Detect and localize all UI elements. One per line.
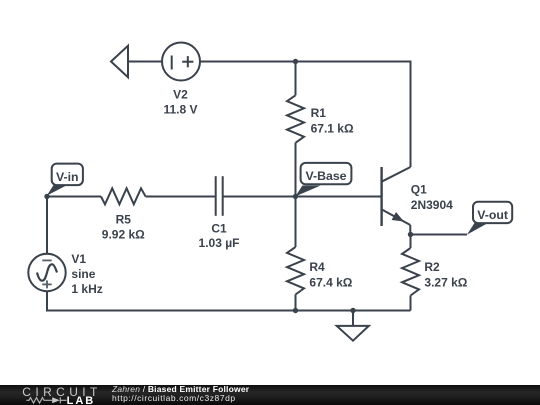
svg-text:1.03 µF: 1.03 µF <box>199 236 240 250</box>
svg-text:LAB: LAB <box>67 395 96 405</box>
wire emitter to output node <box>409 225 411 235</box>
junction top node <box>293 59 298 64</box>
resistor R1 <box>287 95 304 143</box>
footer title <box>112 384 249 394</box>
wire V-in node to V1 <box>46 197 48 255</box>
CircuitLab logo <box>17 384 112 405</box>
svg-text:R2: R2 <box>424 260 440 274</box>
junction V-out node <box>408 232 413 237</box>
resistor R4 <box>287 247 304 295</box>
svg-text:C1: C1 <box>211 222 227 236</box>
label R4 value <box>309 260 352 290</box>
node flag V-Base <box>295 163 351 197</box>
label V2 value <box>163 87 197 116</box>
svg-text:9.92 kΩ: 9.92 kΩ <box>102 228 145 242</box>
junction R4 rail <box>293 308 298 313</box>
wire V1 to ground rail <box>47 291 411 310</box>
wire R2 bottom lead <box>410 296 412 311</box>
svg-text:67.4 kΩ: 67.4 kΩ <box>309 276 352 290</box>
node flag V-in <box>47 164 83 196</box>
label R2 value <box>424 260 467 290</box>
junction ground rail <box>350 308 355 313</box>
svg-text:V-out: V-out <box>477 208 508 222</box>
wire flag to V2 <box>128 61 162 63</box>
node flag V-out <box>467 202 512 235</box>
wire R5 to C1 <box>146 196 216 198</box>
wire V-in node to R5 <box>47 196 101 198</box>
wire C1 to base <box>223 196 382 198</box>
voltage source V1 <box>28 254 65 291</box>
svg-text:V-Base: V-Base <box>305 169 346 183</box>
svg-text:sine: sine <box>71 267 95 281</box>
transistor Q1 <box>382 167 411 226</box>
voltage source V2 <box>162 43 200 81</box>
label Q1 value <box>411 183 453 213</box>
wire R1 bottom to V-Base node <box>295 143 297 197</box>
wire V-Base node to R4 <box>295 197 297 248</box>
svg-text:2N3904: 2N3904 <box>411 198 453 212</box>
resistor R5 <box>101 188 146 204</box>
svg-text:V1: V1 <box>71 252 86 266</box>
wire V2 to top-right corner <box>200 62 411 168</box>
svg-text:V2: V2 <box>173 87 188 101</box>
capacitor C1 <box>216 176 223 216</box>
supply flag arrow <box>111 46 128 78</box>
svg-text:67.1 kΩ: 67.1 kΩ <box>311 121 354 135</box>
label R5 value <box>102 212 145 241</box>
wire output node to V-out flag <box>411 234 468 236</box>
svg-text:1 kHz: 1 kHz <box>71 282 102 296</box>
svg-text:11.8 V: 11.8 V <box>163 103 197 117</box>
wire output node to R2 <box>410 235 412 249</box>
svg-text:3.27 kΩ: 3.27 kΩ <box>424 276 467 290</box>
label R1 value <box>311 106 354 135</box>
junction V-in node <box>44 194 49 199</box>
wire R4 bottom lead <box>295 295 297 311</box>
svg-text:Q1: Q1 <box>411 183 427 197</box>
svg-text:V-in: V-in <box>56 170 79 184</box>
junction V-Base node <box>293 194 298 199</box>
label C1 value <box>199 222 240 251</box>
svg-text:R4: R4 <box>309 260 325 274</box>
svg-text:R1: R1 <box>311 106 327 120</box>
ground <box>337 311 369 341</box>
svg-text:R5: R5 <box>116 212 132 226</box>
resistor R2 <box>402 248 419 296</box>
label V1 value <box>71 252 102 296</box>
wire R1 top lead <box>295 62 297 96</box>
footer url <box>112 393 236 403</box>
footer bar <box>0 385 540 405</box>
